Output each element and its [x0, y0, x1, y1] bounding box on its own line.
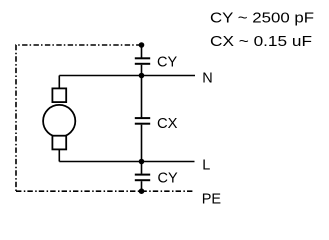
capacitor CY1 bottom plate [135, 63, 150, 65]
junction dot N [139, 73, 145, 79]
junction dot top (enclosure / CY1) [139, 42, 145, 48]
capacitor CY1 top plate [135, 57, 150, 59]
capacitor CY2 top plate [135, 174, 150, 176]
junction dot PE [139, 188, 145, 194]
wire N line [59, 75, 195, 77]
motor M1 circle [43, 105, 75, 137]
svg-text:CX ~ 0.15 uF: CX ~ 0.15 uF [210, 34, 312, 50]
capacitor CY2 bottom plate [135, 179, 150, 181]
svg-text:PE: PE [202, 191, 222, 207]
wire L line [59, 161, 194, 163]
wire vertical chain: top dot to CY1 [141, 45, 143, 58]
motor M1 bottom brush [52, 136, 66, 150]
junction dot L [139, 159, 145, 165]
wire L to CY2 [141, 162, 143, 174]
wire CX to L [141, 125, 143, 162]
wire CY2 to PE [141, 181, 143, 191]
wire motor bottom lead [58, 150, 60, 162]
wire CY1 to N [141, 65, 143, 76]
svg-text:L: L [202, 158, 210, 174]
svg-text:CY: CY [158, 170, 178, 186]
motor M1 top brush [52, 88, 66, 102]
wire motor top lead [58, 76, 60, 89]
svg-text:CY: CY [157, 55, 177, 71]
capacitor CX bottom plate [135, 123, 150, 125]
wire N to CX [141, 76, 143, 118]
svg-text:CY ~ 2500 pF: CY ~ 2500 pF [210, 10, 314, 26]
svg-text:CX: CX [157, 116, 178, 132]
capacitor CX top plate [135, 117, 150, 119]
svg-text:N: N [202, 71, 212, 87]
enclosure boundary (dash-dot chassis box, left side) [16, 45, 142, 191]
wire PE line (dash-dot) [16, 190, 194, 192]
